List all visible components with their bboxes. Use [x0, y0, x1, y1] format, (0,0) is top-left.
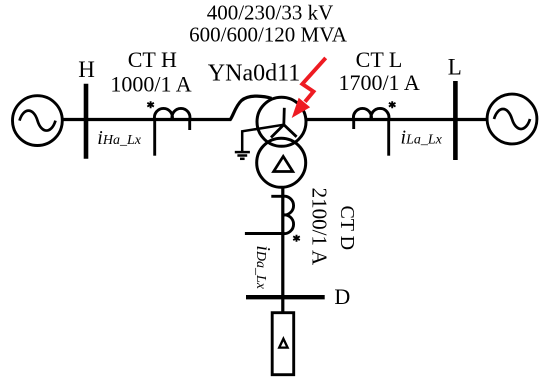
svg-text:2100/1 A: 2100/1 A — [308, 188, 332, 266]
svg-text:H: H — [78, 57, 95, 82]
svg-text:600/600/120 MVA: 600/600/120 MVA — [189, 22, 348, 46]
svg-text:1700/1 A: 1700/1 A — [338, 70, 419, 95]
svg-text:400/230/33 kV: 400/230/33 kV — [207, 1, 334, 25]
svg-text:D: D — [334, 284, 350, 309]
svg-text:CT H: CT H — [128, 47, 177, 72]
svg-text:CT D: CT D — [336, 205, 358, 250]
svg-text:YNa0d11: YNa0d11 — [208, 61, 300, 87]
svg-text:CT L: CT L — [356, 47, 403, 72]
svg-text:1000/1 A: 1000/1 A — [110, 72, 191, 97]
svg-text:L: L — [448, 54, 462, 79]
